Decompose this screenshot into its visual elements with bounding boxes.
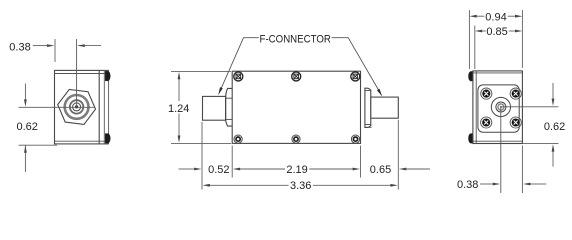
connector inner circle [73,103,81,111]
svg-text:3.36: 3.36 [290,180,311,192]
centerline horizontal (left view) [19,106,96,108]
screw top-left (front view) [234,72,243,81]
lid seam vertical line [475,71,477,144]
connector flange plate [478,85,519,132]
body (front view) [232,71,360,143]
svg-text:F-CONNECTOR: F-CONNECTOR [260,33,331,45]
flange outer face line [108,70,110,143]
dimension 0.62 (right view) [552,83,554,167]
connector mid ring [70,100,83,113]
dimension 0.38 (left view, top) [33,39,101,62]
dimension 0.52 [179,168,195,170]
right F-connector barrel [371,97,399,118]
svg-text:0.52: 0.52 [208,164,229,176]
dimension 3.36 [210,184,289,186]
body bottom edge extended [99,143,109,145]
connector outer gray ring [65,95,89,119]
mounting tab top (right view) [468,72,472,82]
screw bottom-left (front view) [234,135,242,143]
connector back outer circle [491,97,510,116]
right F-connector nut [365,88,371,127]
centerline vertical (right view) [500,107,502,193]
svg-text:2.19: 2.19 [286,164,307,176]
dimension 0.94 (right view top) [469,10,522,69]
connector back gray ring [498,104,504,110]
mounting tab bottom (left view) [105,134,110,144]
leader line right [332,38,381,94]
lid inner top line [473,72,523,74]
connector back mid circle [496,102,506,112]
svg-text:0.38: 0.38 [457,179,478,191]
dimension 2.19 [240,168,285,170]
dimension 0.62 (left view) [19,84,58,173]
flange mid line [103,70,105,143]
dimension 1.24 (front view) [171,71,231,143]
screw top-right (front view) [351,72,360,81]
left F-connector nut [226,88,233,126]
svg-text:0.62: 0.62 [16,121,37,133]
svg-text:0.38: 0.38 [9,41,30,53]
left F-connector barrel [203,96,226,120]
body (left view) [55,70,100,143]
flange screw top-right [510,88,521,99]
screw top-middle (front view) [292,72,301,81]
hex nut (left view) [58,89,96,124]
svg-text:0.62: 0.62 [544,121,565,133]
mounting tab bottom (right view) [468,134,472,144]
screw bottom-right (front view) [351,135,359,143]
flange screw bottom-right [510,117,521,128]
lid inner bottom line [473,140,523,142]
connector back center dot [500,106,502,108]
lid inner bottom line [55,140,109,142]
centerline horizontal (right view) [501,106,559,108]
flange screw bottom-left [481,117,492,128]
dimension 0.85 (right view top) [475,26,515,70]
mounting tab top (left view) [105,71,110,81]
dimension 0.38 (right view bottom) [480,146,546,194]
svg-text:0.94: 0.94 [485,12,506,24]
screw bottom-middle (front view) [292,135,300,143]
svg-text:0.85: 0.85 [486,26,507,38]
connector center pin [75,105,78,108]
bottom dimension extension lines (front view) [202,120,398,190]
svg-text:1.24: 1.24 [168,103,189,115]
flange screw top-left [481,88,492,99]
svg-text:0.65: 0.65 [370,164,391,176]
body bottom edge extended right [522,142,558,144]
centerline vertical (left view) [76,39,78,107]
body (right view) [473,71,523,144]
body top edge extended [99,69,109,71]
leader line left [220,38,259,92]
lid inner top line [55,73,109,75]
